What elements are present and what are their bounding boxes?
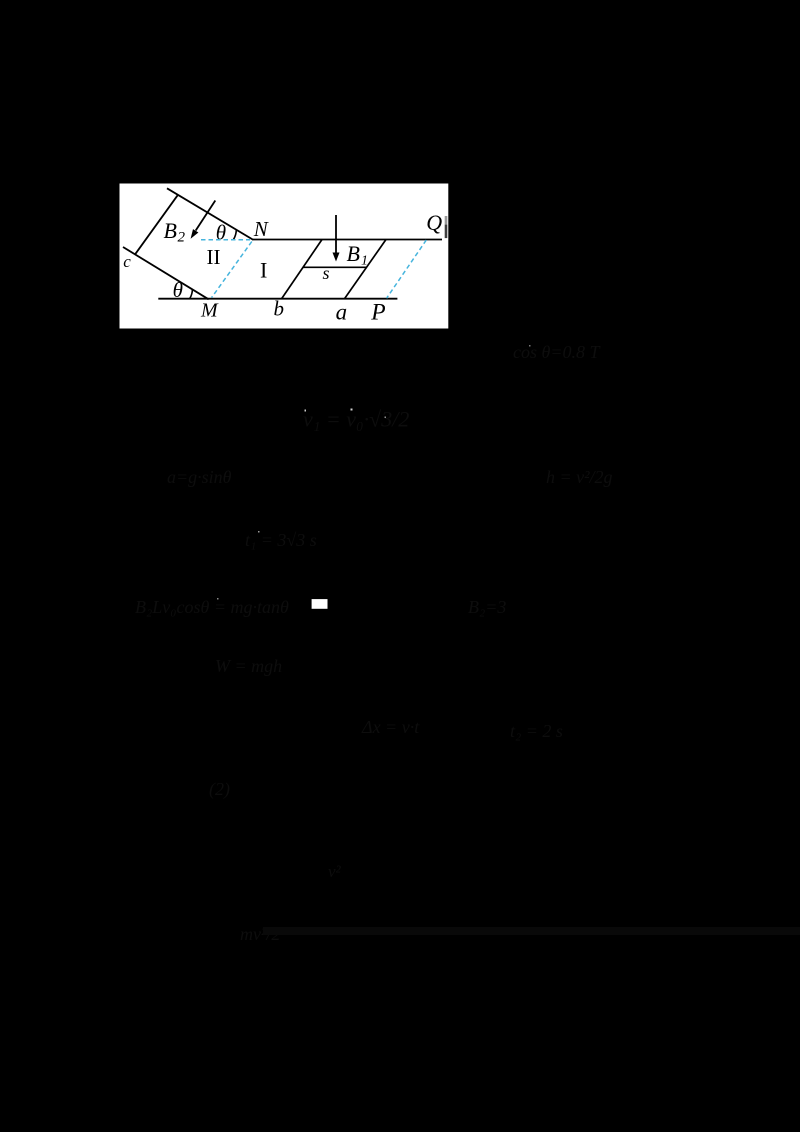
svg-text:a=g·sinθ: a=g·sinθ	[167, 467, 232, 487]
middle parallelogram right slant (at a)	[344, 240, 386, 300]
white figure panel	[120, 184, 449, 329]
dashed horizontal guide at N	[201, 239, 250, 241]
svg-text:Δx = v·t: Δx = v·t	[361, 717, 420, 737]
svg-text:B₂Lv₀cosθ = mg·tanθ: B₂Lv₀cosθ = mg·tanθ	[135, 597, 289, 617]
svg-text:h = v²/2g: h = v²/2g	[546, 467, 613, 487]
svg-text:B: B	[164, 218, 177, 243]
label B2	[164, 218, 186, 245]
scrollbar thumb at panel right edge	[445, 216, 448, 238]
svg-text:II: II	[207, 245, 221, 269]
svg-text:t₁ = 3√3 s: t₁ = 3√3 s	[245, 530, 317, 550]
svg-text:2: 2	[178, 230, 186, 246]
arrow B2 (field direction on incline)	[191, 201, 216, 239]
svg-text:c: c	[123, 252, 131, 271]
svg-text:v²: v²	[328, 862, 342, 881]
conducting bar c across incline rails	[135, 195, 177, 254]
wire: lower incline rail ending at M	[123, 247, 209, 299]
angle arc at N	[234, 230, 237, 240]
label B1	[347, 241, 369, 269]
svg-text:t₂ = 2 s: t₂ = 2 s	[510, 721, 563, 741]
bright speckles in faint equation	[217, 345, 531, 600]
wire: upper incline rail ending at N	[167, 188, 253, 240]
svg-text:W = mgh: W = mgh	[215, 656, 282, 676]
arrow B1 (vertical field arrow)	[333, 215, 340, 262]
svg-text:B₂=3: B₂=3	[468, 597, 506, 617]
dashed diagonal Q to P	[387, 240, 427, 298]
svg-text:B: B	[347, 241, 360, 266]
wire: bottom horizontal rail through M,b,a,P	[158, 298, 397, 300]
middle parallelogram horizontal divider (s bar)	[303, 266, 367, 268]
svg-text:M: M	[200, 299, 219, 321]
svg-text:b: b	[274, 297, 285, 321]
svg-text:θ: θ	[216, 220, 226, 244]
svg-text:P: P	[370, 300, 385, 326]
svg-text:a: a	[336, 300, 348, 325]
svg-text:cos θ=0.8 T: cos θ=0.8 T	[513, 342, 601, 362]
svg-text:(2): (2)	[209, 779, 230, 800]
svg-text:I: I	[260, 257, 267, 282]
svg-text:1: 1	[361, 254, 368, 269]
svg-text:N: N	[253, 217, 269, 241]
svg-text:θ: θ	[173, 278, 183, 302]
white highlight rectangle in solution text	[312, 599, 328, 609]
wire: top horizontal rail N-Q	[253, 239, 442, 241]
svg-text:Q: Q	[426, 210, 442, 235]
faint horizontal band	[263, 927, 800, 935]
dashed diagonal N to M	[212, 242, 252, 298]
svg-text:v₁ = v₀·√3/2: v₁ = v₀·√3/2	[303, 407, 409, 432]
svg-text:s: s	[323, 263, 330, 283]
middle parallelogram left slant (at b)	[281, 240, 322, 300]
angle arc at M	[190, 289, 193, 298]
